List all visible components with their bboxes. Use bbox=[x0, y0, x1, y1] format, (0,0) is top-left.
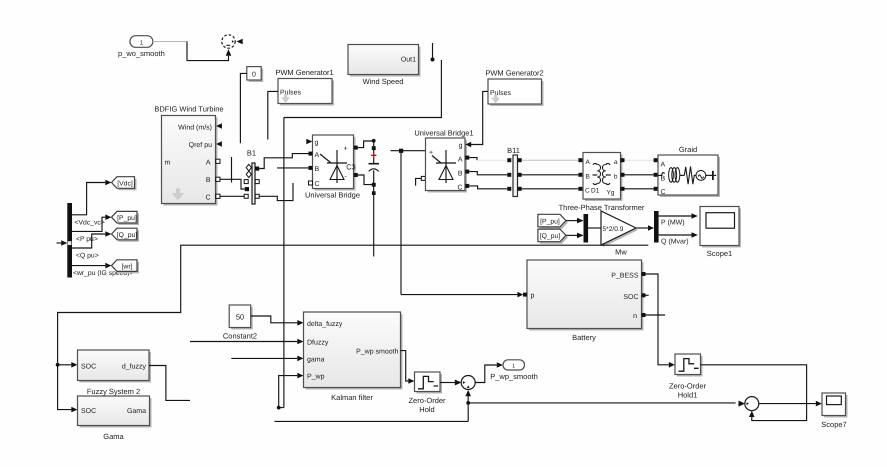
svg-text:g: g bbox=[315, 140, 319, 147]
wire sum1 out to outport bbox=[475, 365, 497, 383]
wire dc plus rail to bridge1 and battery bbox=[391, 149, 524, 298]
gain Mw bbox=[601, 211, 638, 257]
svg-text:B11: B11 bbox=[507, 146, 520, 155]
wires from tags to mux bbox=[566, 218, 584, 238]
svg-text:C: C bbox=[315, 181, 320, 188]
svg-text:Pulses: Pulses bbox=[280, 89, 302, 97]
svg-text:A: A bbox=[458, 157, 463, 164]
svg-text:<Vdc_vc>: <Vdc_vc> bbox=[75, 220, 105, 227]
svg-text:Constant2: Constant2 bbox=[223, 332, 257, 341]
svg-text:D1: D1 bbox=[591, 188, 600, 195]
kalman input arrowheads bbox=[297, 320, 303, 378]
svg-text:p: p bbox=[531, 293, 535, 300]
wire ZOH1 around to sum bbox=[701, 365, 807, 421]
wire turbine C to B1 bbox=[220, 195, 244, 197]
svg-text:B: B bbox=[206, 177, 211, 184]
svg-text:C: C bbox=[205, 195, 210, 202]
goto tag wr bbox=[112, 260, 140, 274]
svg-text:gama: gama bbox=[307, 356, 325, 363]
outport P_wp_smooth bbox=[490, 360, 538, 381]
Three-Phase Transformer bbox=[559, 153, 645, 213]
svg-text:PWM Generator2: PWM Generator2 bbox=[485, 69, 543, 78]
svg-text:0: 0 bbox=[252, 72, 256, 79]
wire bridge1 B to B11 bbox=[469, 172, 507, 175]
svg-text:5*2/0.9: 5*2/0.9 bbox=[603, 226, 624, 233]
wire sum1 bottom feed bbox=[274, 385, 471, 421]
bridge1 g arrowhead bbox=[465, 142, 471, 148]
svg-text:SOC: SOC bbox=[81, 363, 96, 370]
wire long horizontal x284-x441 bbox=[284, 60, 442, 118]
Universal Bridge bbox=[305, 135, 360, 200]
bridge output ports bbox=[354, 146, 358, 177]
capacitor C3 bbox=[346, 139, 379, 257]
svg-text:C3: C3 bbox=[346, 163, 356, 172]
svg-text:+: + bbox=[344, 146, 348, 153]
svg-text:Hold1: Hold1 bbox=[678, 391, 698, 400]
subsystem Kalman filter bbox=[304, 312, 403, 402]
wire Dfuzzy dangling bbox=[190, 341, 297, 343]
PWM Generator1 bbox=[275, 68, 334, 106]
svg-text:Dfuzzy: Dfuzzy bbox=[307, 338, 329, 346]
bus selector bar bbox=[57, 203, 73, 278]
constant 0 bbox=[247, 67, 263, 82]
svg-text:[P_pu]: [P_pu] bbox=[117, 215, 137, 222]
wire demux to scope Q bbox=[659, 232, 698, 246]
svg-text:p_wo_smooth: p_wo_smooth bbox=[118, 49, 165, 58]
wire fuzzy out dangling bbox=[149, 366, 190, 401]
svg-text:PWM Generator1: PWM Generator1 bbox=[275, 68, 333, 77]
svg-text:[P_pu]: [P_pu] bbox=[540, 218, 560, 225]
three-phase breaker B1 bbox=[244, 149, 259, 205]
constant Constant2 bbox=[223, 305, 257, 341]
svg-text:P_BESS: P_BESS bbox=[611, 273, 639, 280]
sum2 bbox=[739, 397, 759, 411]
goto tag Q_pu bbox=[112, 228, 140, 242]
svg-text:C: C bbox=[661, 189, 666, 196]
demux bar bbox=[654, 211, 659, 243]
wire long SOC feedback bbox=[56, 245, 649, 412]
svg-text:[Q_pu]: [Q_pu] bbox=[117, 232, 138, 239]
wire battery SOC stub bbox=[642, 293, 649, 297]
svg-text:P_wp smooth: P_wp smooth bbox=[356, 348, 399, 356]
from tag Q_pu bbox=[538, 229, 568, 244]
wire gain to demux bbox=[636, 225, 654, 231]
svg-text:SOC: SOC bbox=[81, 408, 96, 415]
subsystem Battery bbox=[523, 260, 644, 342]
svg-text:P (MW): P (MW) bbox=[661, 219, 685, 227]
subsystem Fuzzy System 2 bbox=[78, 350, 152, 396]
wire P_wp riser bbox=[277, 376, 297, 410]
wire bridge1 C to B11 bbox=[469, 186, 507, 189]
svg-text:n: n bbox=[633, 313, 637, 320]
svg-text:Wind (m/s): Wind (m/s) bbox=[178, 124, 212, 132]
wire stub near wind speed bbox=[431, 43, 435, 62]
bridge1 output ports bbox=[465, 156, 469, 188]
svg-text:Hold: Hold bbox=[419, 405, 434, 414]
svg-text:A: A bbox=[661, 162, 666, 169]
svg-text:B: B bbox=[661, 176, 666, 183]
wire gama dangling bbox=[231, 357, 297, 359]
wire bus out P_pu bbox=[72, 214, 111, 243]
svg-text:[Q_pu]: [Q_pu] bbox=[540, 233, 561, 240]
svg-text:delta_fuzzy: delta_fuzzy bbox=[307, 320, 343, 328]
svg-text:C: C bbox=[585, 188, 590, 195]
svg-text:Gama: Gama bbox=[103, 432, 124, 441]
measurement block B11 bbox=[507, 146, 522, 197]
svg-text:Out1: Out1 bbox=[401, 57, 416, 64]
wire constant0 down bbox=[240, 73, 246, 143]
svg-text:Kalman filter: Kalman filter bbox=[331, 393, 373, 402]
svg-text:Scope7: Scope7 bbox=[821, 420, 846, 429]
wire bus out wr bbox=[72, 263, 133, 277]
svg-text:SOC: SOC bbox=[623, 294, 638, 301]
wire sum2 to scope7 bbox=[759, 403, 816, 405]
wire bridge1 A to B11 bbox=[469, 158, 477, 161]
wire kalman out to ZOH bbox=[401, 351, 409, 381]
bridge input ports bbox=[306, 139, 312, 185]
svg-text:d_fuzzy: d_fuzzy bbox=[122, 362, 147, 370]
wire B1 lower right step bbox=[259, 183, 293, 201]
svg-text:Zero-Order: Zero-Order bbox=[408, 396, 446, 405]
svg-text:Q (Mvar): Q (Mvar) bbox=[661, 238, 689, 246]
svg-text:Graid: Graid bbox=[679, 145, 697, 154]
Universal Bridge1 bbox=[414, 129, 473, 193]
wire PWM2 pulses to bridge1 g bbox=[471, 91, 488, 144]
goto tag Vdc bbox=[112, 177, 137, 191]
mux bar bbox=[584, 214, 589, 243]
svg-text:m: m bbox=[165, 160, 171, 167]
svg-text:C: C bbox=[457, 185, 462, 192]
svg-text:Battery: Battery bbox=[572, 333, 596, 342]
svg-text:Universal Bridge: Universal Bridge bbox=[305, 191, 360, 200]
svg-text:a: a bbox=[614, 159, 618, 166]
svg-text:50: 50 bbox=[236, 313, 244, 322]
svg-text:Pulses: Pulses bbox=[490, 89, 512, 97]
svg-text:A: A bbox=[315, 152, 320, 159]
svg-text:BDFIG Wind Turbine: BDFIG Wind Turbine bbox=[154, 105, 223, 114]
svg-text:B: B bbox=[458, 171, 463, 178]
svg-text:Zero-Order: Zero-Order bbox=[669, 382, 707, 391]
wire turbine B to B1 bbox=[220, 179, 245, 189]
wire bridge minus out to C3 bbox=[358, 175, 374, 185]
subsystem BDFIG Wind Turbine bbox=[154, 105, 223, 206]
svg-text:B: B bbox=[315, 166, 320, 173]
turbine output ports A B C bbox=[216, 159, 220, 198]
svg-text:Fuzzy System 2: Fuzzy System 2 bbox=[87, 387, 140, 396]
sum1 bbox=[461, 376, 475, 390]
wire constant2 to kalman bbox=[251, 316, 298, 323]
subsystem Gama bbox=[78, 396, 152, 441]
wire bus out Q_pu bbox=[72, 231, 111, 259]
sum block Add bbox=[222, 35, 243, 48]
zero-order hold bbox=[408, 372, 446, 414]
PWM Generator2 bbox=[485, 69, 543, 107]
svg-text:A: A bbox=[206, 160, 211, 167]
zero-order hold1 bbox=[669, 354, 707, 400]
wire ZOH to sum1 bbox=[440, 382, 455, 384]
wire mux to gain bbox=[588, 227, 601, 229]
goto tag P_pu bbox=[112, 211, 140, 225]
wire battery n stub bbox=[642, 313, 666, 317]
wire PWM1 pulses bbox=[268, 91, 278, 139]
svg-text:<Q pu>: <Q pu> bbox=[76, 253, 99, 260]
svg-text:g: g bbox=[459, 143, 463, 150]
svg-text:Yg: Yg bbox=[607, 190, 615, 197]
wire isolated vertical x231 bbox=[231, 157, 233, 183]
Wind Speed subsystem bbox=[348, 45, 421, 87]
scope Scope1 bbox=[700, 207, 741, 259]
svg-text:P_wp_smooth: P_wp_smooth bbox=[490, 372, 538, 381]
wire transformer to grid rails bbox=[625, 160, 654, 189]
scope Scope7 bbox=[821, 393, 847, 429]
svg-text:Qref pu: Qref pu bbox=[189, 141, 212, 149]
from tag P_pu bbox=[538, 214, 568, 229]
wire long vertical x284 bbox=[283, 118, 285, 408]
wire p_wo_smooth to sum bbox=[153, 42, 232, 61]
wire rail to bridge B input bbox=[277, 167, 309, 169]
svg-text:[wr]: [wr] bbox=[122, 263, 133, 270]
wire battery P_BESS to ZOH1 bbox=[642, 272, 675, 368]
svg-text:Gama: Gama bbox=[127, 408, 146, 415]
svg-text:B1: B1 bbox=[247, 149, 256, 158]
svg-text:Wind Speed: Wind Speed bbox=[363, 77, 404, 86]
wire B1 to bridge A input bbox=[259, 154, 308, 169]
outport p_wo_smooth bbox=[118, 36, 165, 58]
wire sum1 branch to sum2 bbox=[468, 402, 735, 404]
svg-text:Mw: Mw bbox=[615, 248, 627, 257]
svg-text:Scope1: Scope1 bbox=[707, 249, 732, 258]
svg-text:1: 1 bbox=[512, 364, 515, 370]
wire demux to scope P bbox=[659, 213, 698, 227]
svg-text:B: B bbox=[586, 174, 590, 181]
svg-text:A: A bbox=[586, 159, 591, 166]
wire bridge plus out to C3 bbox=[358, 141, 374, 148]
grid block Graid bbox=[654, 145, 720, 197]
svg-text:Universal Bridge1: Universal Bridge1 bbox=[414, 129, 473, 138]
turbine input arrowheads bbox=[216, 123, 222, 147]
svg-text:[Vdc]: [Vdc] bbox=[117, 180, 133, 187]
wire bus out Vdc bbox=[72, 180, 111, 227]
wire bridge1 minus input bbox=[416, 176, 426, 185]
svg-text:Three-Phase Transformer: Three-Phase Transformer bbox=[559, 203, 645, 212]
svg-text:b: b bbox=[614, 174, 618, 181]
svg-text:<P pu>: <P pu> bbox=[76, 236, 98, 243]
svg-text:P_wp: P_wp bbox=[307, 374, 325, 381]
wire B11 to transformer rails bbox=[522, 160, 579, 189]
